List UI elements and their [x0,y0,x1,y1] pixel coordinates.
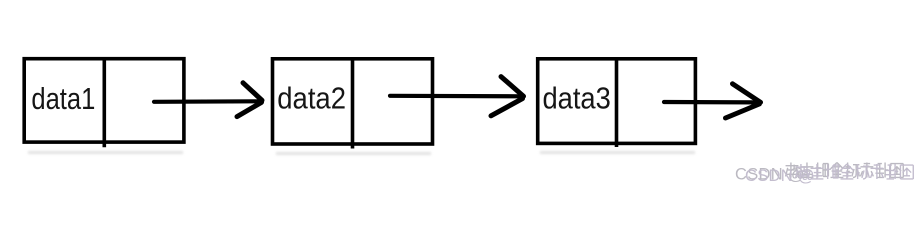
svg-text:data1: data1 [31,82,95,116]
arrow 3 (next pointer of node 3) [664,84,761,118]
arrow 3 head upper barb [733,84,761,103]
node 2 divider [351,59,355,149]
arrow 1 (next pointer of node 1) [154,83,262,117]
arrow 1 head upper barb [243,83,262,101]
node 1 box [24,58,184,147]
node 2 box [273,59,433,149]
arrow 3 head lower barb [726,104,760,118]
shadow under node 2 [276,152,431,155]
node 1 divider [103,58,107,147]
node 3 outline [538,59,696,144]
svg-text:data3: data3 [543,82,611,116]
arrow 1 head lower barb [237,102,262,116]
watermark copy 1 (gray) : CSDN @ + CJK scribble [735,163,903,184]
watermark copy 2 (purple-gray) [745,164,913,185]
arrow 2 (next pointer of node 2) [390,77,524,116]
svg-text:data2: data2 [277,82,346,116]
shadow under node 1 [28,151,183,154]
arrow 2 head upper barb [501,77,524,97]
node 1 outline [24,59,184,142]
arrow 3 shaft [664,100,756,105]
arrow 1 shaft [154,99,259,104]
shadow under node 3 [540,151,695,154]
node 3 box [538,59,696,148]
arrow 2 shaft [390,94,521,99]
arrow 2 head lower barb [491,99,523,116]
node 3 divider [615,59,619,148]
node 2 outline [273,59,433,144]
